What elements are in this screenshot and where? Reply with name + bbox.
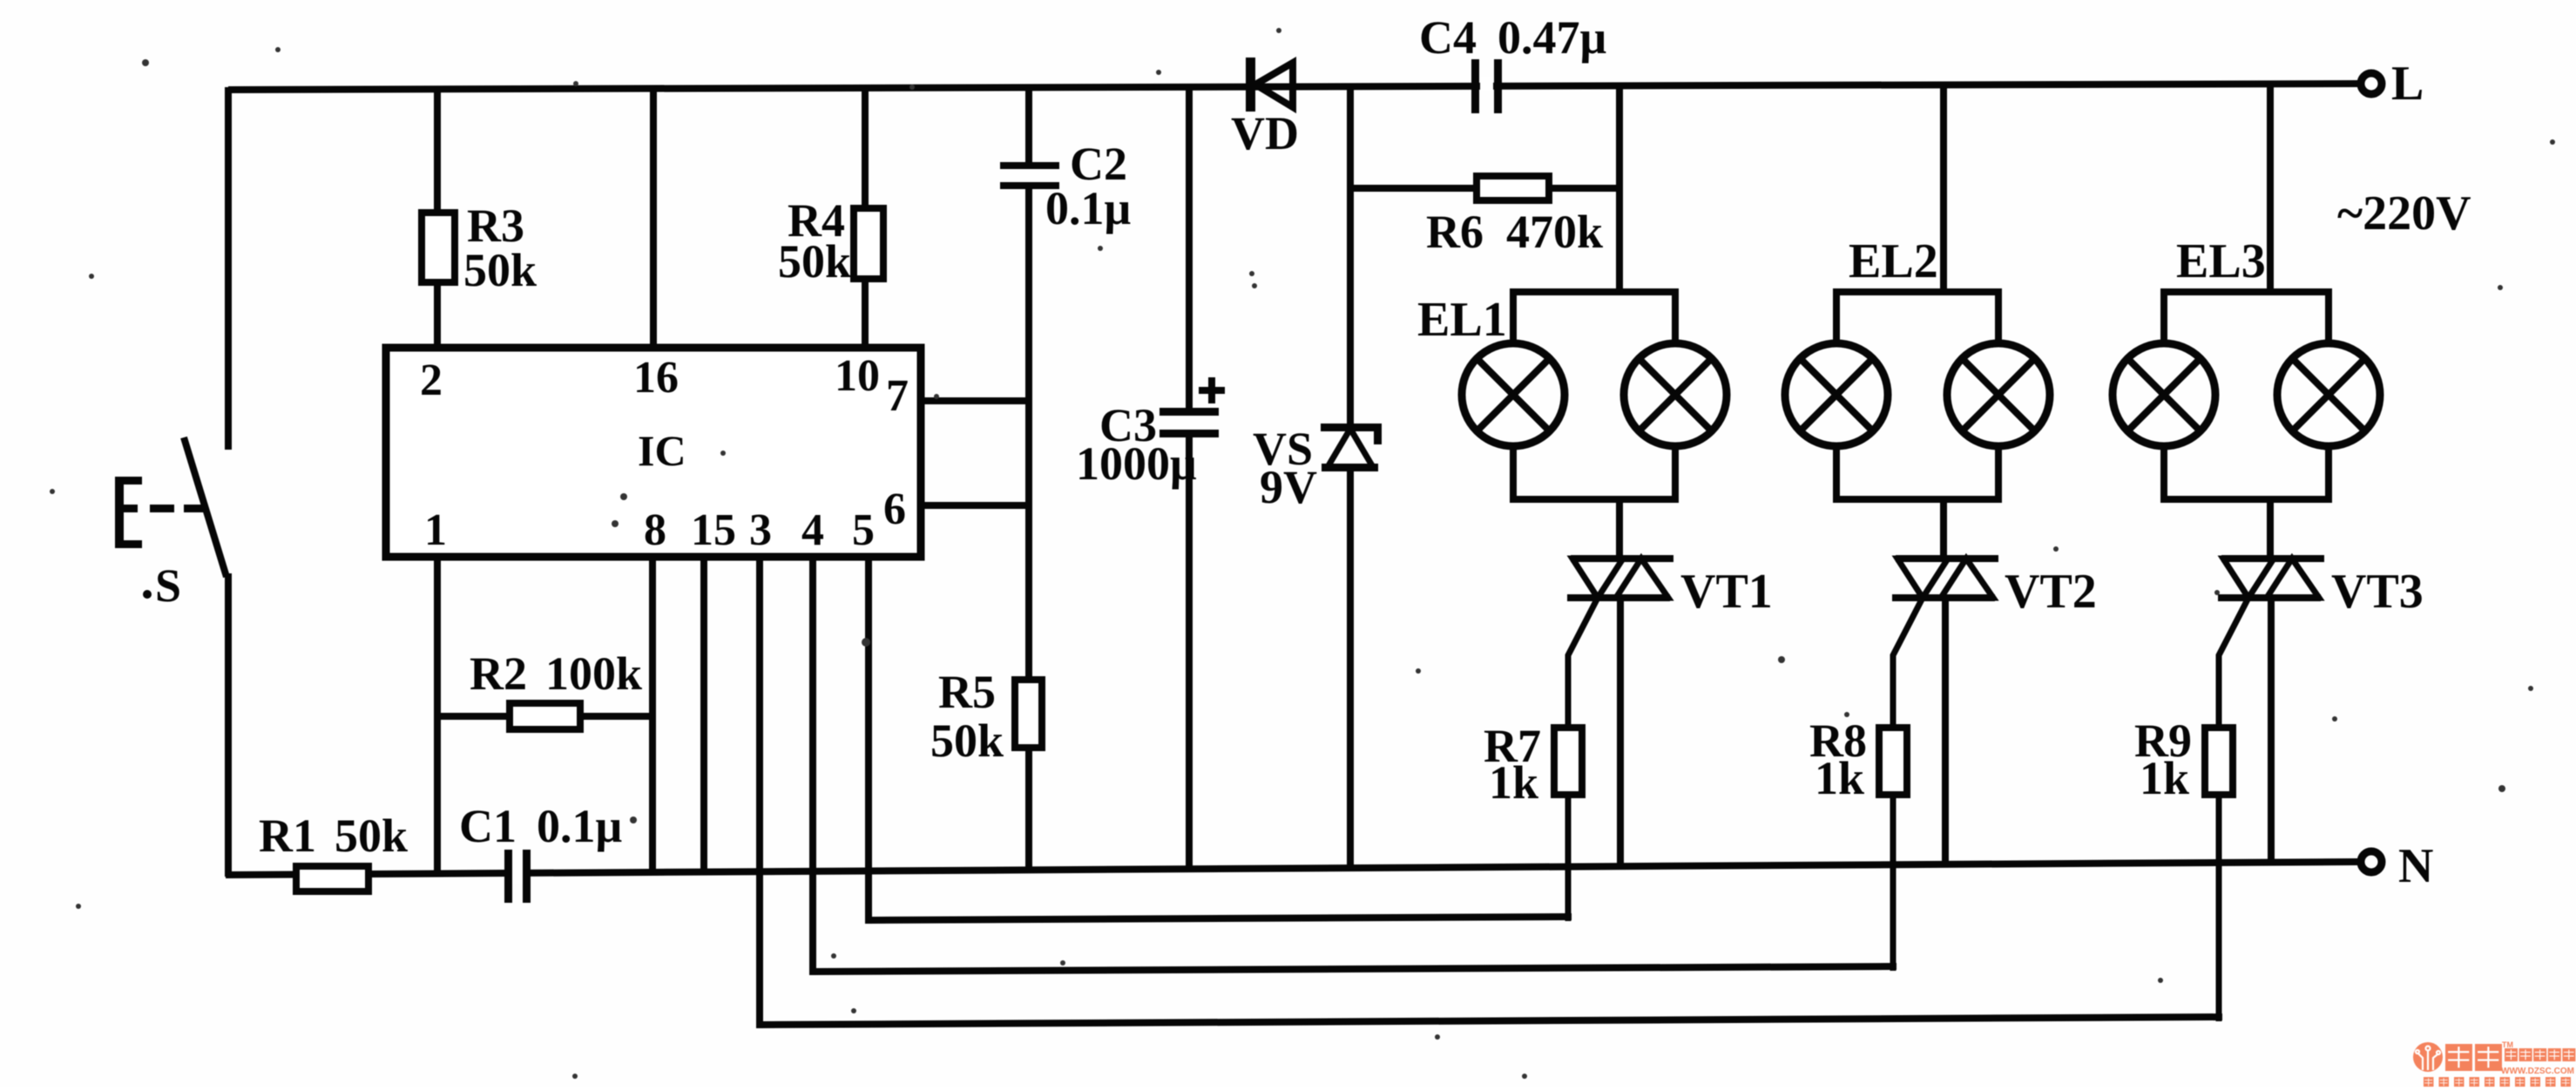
svg-text:6: 6 — [883, 485, 906, 534]
svg-text:TM: TM — [2502, 1040, 2513, 1049]
svg-text:R1: R1 — [259, 810, 316, 862]
svg-text:1: 1 — [424, 505, 447, 555]
svg-text:15: 15 — [691, 505, 736, 555]
svg-text:3: 3 — [749, 505, 772, 555]
svg-text:50k: 50k — [463, 244, 537, 296]
svg-text:16: 16 — [633, 353, 679, 403]
svg-text:50k: 50k — [930, 715, 1004, 767]
svg-text:L: L — [2391, 57, 2424, 111]
svg-text:S: S — [155, 559, 181, 612]
svg-text:VT1: VT1 — [1680, 565, 1773, 619]
svg-text:1k: 1k — [2140, 752, 2189, 804]
svg-text:VT3: VT3 — [2331, 565, 2424, 619]
svg-text:EL3: EL3 — [2176, 234, 2266, 288]
svg-text:C1: C1 — [459, 800, 517, 852]
svg-text:VT2: VT2 — [2005, 565, 2097, 619]
svg-text:4: 4 — [801, 505, 824, 555]
svg-text:IC: IC — [638, 426, 686, 475]
svg-text:EL2: EL2 — [1849, 234, 1938, 288]
svg-text:2: 2 — [420, 356, 443, 405]
svg-text:470k: 470k — [1506, 206, 1603, 258]
svg-text:0.1μ: 0.1μ — [1045, 182, 1131, 234]
svg-text:100k: 100k — [545, 647, 642, 700]
svg-text:1k: 1k — [1815, 752, 1864, 804]
svg-text:50k: 50k — [778, 235, 851, 288]
svg-text:N: N — [2398, 839, 2433, 893]
svg-text:0.1μ: 0.1μ — [537, 800, 622, 852]
svg-text:5: 5 — [852, 505, 875, 555]
svg-text:EL1: EL1 — [1417, 293, 1507, 347]
svg-text:R5: R5 — [938, 666, 996, 718]
svg-text:8: 8 — [644, 505, 666, 555]
svg-text:VD: VD — [1231, 107, 1299, 159]
svg-text:50k: 50k — [335, 810, 408, 862]
svg-text:C4: C4 — [1419, 11, 1477, 64]
svg-text:~220V: ~220V — [2337, 186, 2471, 241]
svg-text:10: 10 — [835, 351, 880, 401]
svg-text:1k: 1k — [1489, 756, 1538, 809]
svg-text:WWW.DZSC.COM: WWW.DZSC.COM — [2501, 1066, 2574, 1076]
svg-text:0.47μ: 0.47μ — [1498, 11, 1606, 64]
svg-text:R2: R2 — [470, 647, 527, 700]
svg-text:9V: 9V — [1260, 461, 1317, 513]
svg-text:7: 7 — [886, 371, 909, 421]
svg-text:1000μ: 1000μ — [1076, 437, 1197, 490]
svg-text:R6: R6 — [1426, 206, 1484, 258]
